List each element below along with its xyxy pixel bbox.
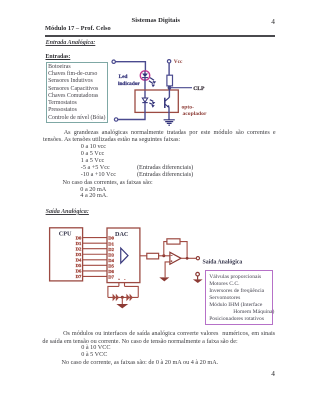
wire LED to bottom terminal bbox=[118, 103, 145, 120]
ground stem bbox=[121, 297, 123, 304]
resistor bbox=[167, 75, 173, 86]
data bus wires D0-D7 bbox=[83, 238, 107, 277]
paragraph 1 bbox=[64, 129, 276, 136]
paragraph 2 bbox=[63, 330, 275, 337]
LED indicator ring bbox=[140, 71, 149, 80]
svg-text:CLP: CLP bbox=[193, 86, 205, 92]
wire resistor to collector bbox=[168, 86, 170, 98]
svg-text:DAC: DAC bbox=[115, 231, 128, 238]
svg-text:D6: D6 bbox=[108, 269, 114, 274]
wire CLP bbox=[169, 87, 192, 89]
diode pair left bbox=[113, 294, 120, 302]
opto LED bbox=[142, 98, 147, 102]
svg-text:D1: D1 bbox=[76, 241, 82, 246]
wire emitter to ground bbox=[168, 108, 170, 120]
phototransistor bbox=[164, 98, 166, 108]
svg-text:D6: D6 bbox=[76, 269, 82, 274]
svg-text:D7: D7 bbox=[76, 274, 82, 279]
page number bottom bbox=[271, 369, 275, 378]
svg-text:indicador: indicador bbox=[118, 81, 140, 87]
CPU pin labels D0-D7 bbox=[76, 235, 82, 279]
output terminal bbox=[196, 257, 199, 260]
op-amp input signs bbox=[171, 255, 173, 262]
svg-text:D5: D5 bbox=[76, 263, 82, 268]
Vcc terminal bbox=[167, 60, 170, 63]
svg-text:D5: D5 bbox=[108, 264, 114, 269]
wire DAC output bbox=[140, 255, 147, 257]
return terminal bbox=[196, 272, 200, 276]
Entradas box bbox=[46, 62, 108, 123]
ground arrow bbox=[116, 304, 128, 308]
circuit 2: DAC output stage bbox=[44, 222, 294, 312]
ground bbox=[164, 120, 175, 125]
svg-text:Saída Analógica: Saída Analógica bbox=[203, 259, 243, 265]
page number top bbox=[271, 17, 275, 26]
junction node output bbox=[186, 257, 189, 260]
svg-text:D0: D0 bbox=[108, 236, 114, 241]
op-amp bbox=[170, 252, 181, 264]
svg-text:D0: D0 bbox=[76, 235, 82, 240]
svg-text:acoplador: acoplador bbox=[183, 111, 207, 117]
resistor input bbox=[147, 253, 159, 259]
opto-coupler box bbox=[135, 90, 178, 112]
svg-text:D4: D4 bbox=[108, 258, 114, 263]
svg-text:Led: Led bbox=[119, 74, 128, 80]
output devices box bbox=[205, 270, 273, 325]
svg-text:D3: D3 bbox=[108, 252, 114, 257]
svg-text:CPU: CPU bbox=[59, 230, 72, 237]
diode pair right bbox=[126, 294, 132, 302]
svg-text:D7: D7 bbox=[108, 275, 114, 280]
svg-text:opto-: opto- bbox=[182, 105, 195, 111]
junction node input bbox=[162, 254, 165, 257]
CPU box bbox=[50, 228, 83, 281]
module line bbox=[45, 25, 111, 32]
junction node ground bbox=[121, 296, 124, 299]
input terminal top bbox=[112, 60, 115, 63]
reference loop wires bbox=[108, 286, 138, 297]
wire to op-amp bbox=[159, 255, 170, 257]
DAC bottom pins bbox=[119, 283, 125, 287]
circuit 1: opto-coupled digital input bbox=[104, 54, 214, 130]
LED indicator diode bbox=[142, 74, 148, 78]
return arrow bbox=[197, 276, 199, 279]
wire from top terminal bbox=[116, 62, 146, 71]
output wire bbox=[181, 257, 196, 259]
svg-text:Vcc: Vcc bbox=[174, 59, 183, 65]
DAC triangle symbol bbox=[121, 248, 128, 263]
Entradas label bbox=[46, 54, 71, 60]
LED emission arrows bbox=[149, 78, 154, 84]
svg-text:D2: D2 bbox=[108, 247, 114, 252]
header title bbox=[132, 17, 180, 24]
feedback wire down to output bbox=[180, 242, 187, 259]
non-inverting input wire bbox=[165, 262, 170, 277]
svg-text:D4: D4 bbox=[76, 258, 82, 263]
resistor feedback bbox=[167, 239, 180, 244]
input terminal bottom bbox=[114, 118, 117, 121]
ground op-amp bbox=[159, 277, 169, 281]
voltage ranges list bbox=[81, 143, 116, 178]
DAC pin labels D0-D7 bbox=[108, 236, 114, 280]
svg-text:D3: D3 bbox=[76, 252, 82, 257]
svg-text:D2: D2 bbox=[76, 246, 82, 251]
header rule bbox=[45, 35, 275, 37]
DAC bottom pin marks bbox=[118, 279, 125, 280]
junction node bbox=[168, 86, 172, 90]
wire Vcc to resistor bbox=[168, 63, 170, 75]
svg-text:D1: D1 bbox=[108, 241, 114, 246]
DAC box bbox=[107, 228, 140, 283]
opto LED arrows bbox=[149, 100, 153, 105]
heading 1 bbox=[46, 40, 96, 46]
wire into opto box bbox=[144, 80, 146, 98]
feedback wire up bbox=[164, 242, 167, 256]
heading 2 bbox=[46, 209, 89, 215]
